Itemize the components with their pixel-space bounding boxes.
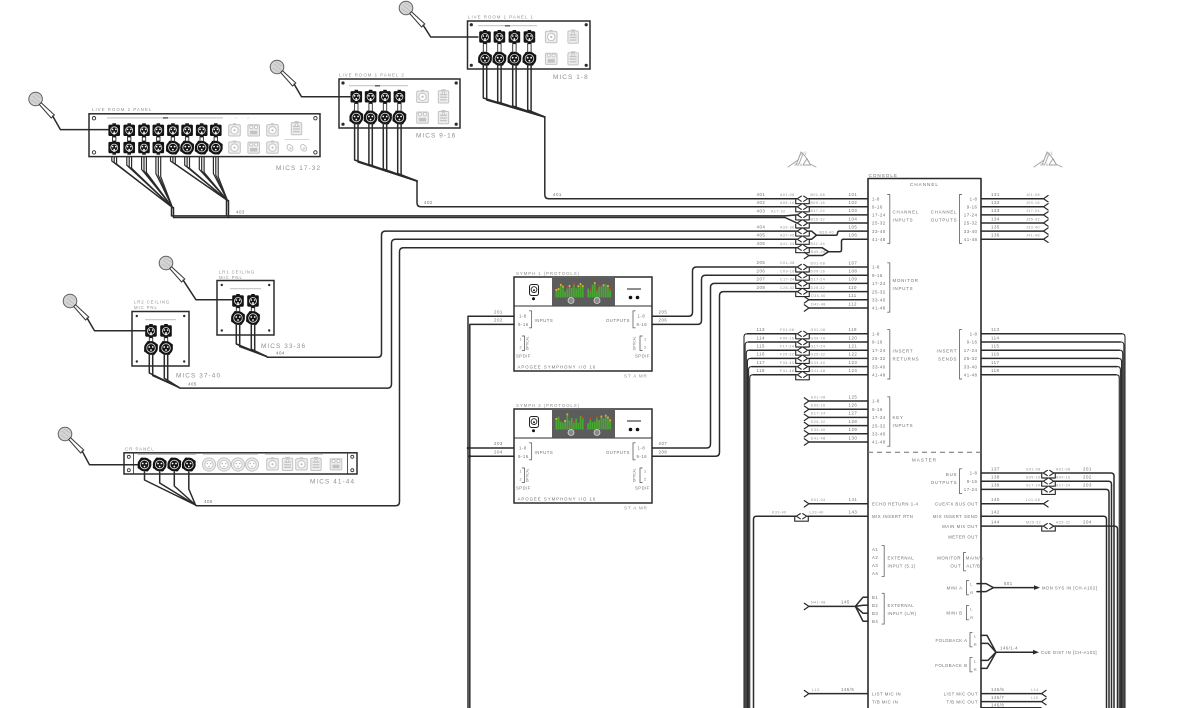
svg-text:CHANNEL: CHANNEL [931,210,958,215]
console section INSERT RETURNS [872,330,919,379]
svg-text:KEY: KEY [893,415,904,420]
svg-text:INPUTS: INPUTS [535,450,554,455]
svg-text:APOGEE SYMPHONY I/O 16: APOGEE SYMPHONY I/O 16 [518,365,597,370]
svg-text:117: 117 [757,360,766,365]
svg-text:INSERT: INSERT [893,348,914,353]
svg-text:SPDIF: SPDIF [516,486,531,491]
wire trunk 403 [172,208,797,223]
svg-text:112: 112 [849,301,858,306]
svg-text:139: 139 [991,483,1000,488]
svg-text:33-40: 33-40 [964,229,978,234]
svg-text:C09-16: C09-16 [780,269,795,273]
svg-text:A17-24: A17-24 [1056,484,1071,488]
svg-text:25-32: 25-32 [872,423,886,428]
svg-text:INPUTS: INPUTS [893,218,914,223]
svg-text:L: L [974,659,977,664]
wire trunk 402 [417,181,797,207]
svg-text:404: 404 [276,351,285,356]
wires channel outputs 131-136 [981,192,1048,242]
svg-text:CONSOLE: CONSOLE [869,173,898,178]
svg-text:17-24: 17-24 [872,213,886,218]
svg-text:M25-32: M25-32 [1026,520,1041,524]
svg-text:MINI B: MINI B [946,610,962,615]
svg-text:133: 133 [991,208,1000,213]
panel LIVE ROOM 1 PANEL 1 [468,15,591,69]
console block MONITOR OUT MAIN/ALT [937,552,983,570]
svg-text:F33-40: F33-40 [780,361,794,365]
svg-text:114: 114 [991,335,1000,340]
svg-text:106: 106 [849,233,858,238]
console section CHANNEL OUTPUTS [931,195,978,244]
svg-text:ECHO RETURN 1-4: ECHO RETURN 1-4 [872,502,919,507]
microphone mic 4 LR1 ceiling [159,256,185,282]
svg-text:202: 202 [1083,475,1092,480]
svg-text:E41-48: E41-48 [811,436,826,440]
svg-text:ST A: ST A [1040,163,1049,167]
svg-text:103: 103 [849,208,858,213]
svg-text:INPUT (5.1): INPUT (5.1) [888,563,916,568]
console frame [868,173,981,708]
svg-text:D41-48: D41-48 [811,302,826,306]
svg-text:206: 206 [757,268,766,273]
svg-text:124: 124 [849,368,858,373]
svg-text:405: 405 [188,381,197,386]
svg-text:9-16: 9-16 [637,322,648,327]
wire mic1 to panel1 [423,25,478,37]
svg-text:SPDIF: SPDIF [635,354,650,359]
svg-text:A01-08: A01-08 [780,193,795,197]
svg-text:INPUT (L/R): INPUT (L/R) [888,611,917,616]
svg-text:1: 1 [644,338,647,342]
svg-text:RETURNS: RETURNS [893,356,920,361]
svg-text:L33-40: L33-40 [810,511,824,515]
panel LR2 CEILING MIC PNL [132,300,189,366]
svg-text:G25-32: G25-32 [811,353,826,357]
svg-text:25-32: 25-32 [872,289,886,294]
wire 205 symph1 out 1-8 to monitor in [652,260,797,316]
svg-text:1-8: 1-8 [638,446,646,451]
svg-text:9-16: 9-16 [518,454,529,459]
row METER OUT [948,535,978,540]
label MICS 37-40 [176,373,221,380]
svg-text:203: 203 [1083,483,1092,488]
svg-text:OUTPUTS: OUTPUTS [606,318,630,323]
svg-text:201: 201 [494,309,503,314]
microphone mic 6 control room [58,427,84,453]
svg-text:G09-16: G09-16 [811,336,826,340]
svg-text:501: 501 [1004,581,1013,586]
device SYMPH 1 (PROTOOLS) Apogee Symphony I/O 16 [514,271,652,371]
svg-text:LIVE ROOM 1 PANEL 1: LIVE ROOM 1 PANEL 1 [468,15,534,20]
svg-text:406: 406 [204,499,213,504]
svg-text:T/B MIC OUT: T/B MIC OUT [946,699,978,704]
svg-text:9-16: 9-16 [967,205,978,210]
svg-text:D01-08: D01-08 [811,261,826,265]
svg-text:121: 121 [849,344,858,349]
svg-text:A09-16: A09-16 [1056,476,1071,480]
svg-text:402: 402 [757,200,766,205]
svg-text:F25-32: F25-32 [780,353,794,357]
svg-text:105: 105 [849,224,858,229]
svg-text:F17-24: F17-24 [780,345,794,349]
svg-text:1: 1 [644,470,647,474]
svg-text:B17-24: B17-24 [811,209,826,213]
svg-text:MONITOR: MONITOR [893,278,919,283]
svg-text:D33-40: D33-40 [811,294,826,298]
svg-text:MIC PNL: MIC PNL [219,275,243,280]
label MICS 1-8 [553,74,589,81]
svg-text:SYMPH 1 (PROTOOLS): SYMPH 1 (PROTOOLS) [516,271,580,276]
revision mark left [788,150,816,167]
wire mic2 to panel2 [294,84,350,97]
svg-text:D17-24: D17-24 [811,278,826,282]
svg-text:INPUTS: INPUTS [893,286,914,291]
svg-text:MONITOR: MONITOR [937,555,961,560]
cable fan CR panel [145,472,196,505]
svg-text:41-48: 41-48 [872,237,886,242]
wire 202 symph1 input 9-16 [470,318,514,708]
svg-text:2: 2 [520,346,523,350]
svg-text:J25-32: J25-32 [1026,217,1040,221]
svg-text:143: 143 [849,510,858,515]
svg-text:OUTPUTS: OUTPUTS [931,218,958,223]
svg-text:MIC PNL: MIC PNL [134,305,158,310]
svg-text:B41-44: B41-44 [811,242,826,246]
svg-text:125: 125 [849,394,858,399]
wires insert returns 113-118 to 119-124 [744,327,868,708]
svg-text:R: R [974,667,977,672]
svg-text:CUE DIST IN [CH-A103]: CUE DIST IN [CH-A103] [1041,650,1097,655]
svg-text:LIST MIC OUT: LIST MIC OUT [944,691,978,696]
svg-text:127: 127 [849,411,858,416]
svg-text:205: 205 [659,309,668,314]
svg-text:9-16: 9-16 [967,479,978,484]
svg-text:F01-08: F01-08 [780,328,794,332]
svg-text:G01-08: G01-08 [811,328,826,332]
svg-text:115: 115 [991,344,1000,349]
svg-text:C01-08: C01-08 [780,261,795,265]
svg-text:B3: B3 [872,611,878,616]
svg-text:208: 208 [659,449,668,454]
wire 208 symph2 out 9-16 to monitor in [652,285,797,456]
label MICS 17-32 [276,165,321,172]
svg-text:17-24: 17-24 [964,487,978,492]
svg-text:146/5: 146/5 [841,687,854,692]
svg-text:41-48: 41-48 [964,237,978,242]
rows FOLDBACK A/B to CUE DIST IN [935,632,1097,671]
svg-text:405: 405 [757,233,766,238]
svg-text:110: 110 [849,285,858,290]
svg-text:MINI A: MINI A [947,585,963,590]
svg-text:MICS 1-8: MICS 1-8 [553,74,589,81]
cable fan LR1 panel [236,325,266,357]
svg-text:B09-16: B09-16 [811,201,826,205]
svg-text:ST A: ST A [794,163,803,167]
svg-text:S09-16: S09-16 [1026,476,1041,480]
svg-text:9-16: 9-16 [872,407,883,412]
svg-text:25-32: 25-32 [872,356,886,361]
svg-text:1: 1 [520,338,523,342]
svg-text:41-48: 41-48 [964,373,978,378]
svg-text:128: 128 [849,419,858,424]
console block EXTERNAL INPUT (L/R) with 145 feed [804,593,916,624]
svg-text:A09-16: A09-16 [780,201,795,205]
svg-text:OPTICAL: OPTICAL [526,468,530,482]
svg-text:134: 134 [991,216,1000,221]
wire mic6 to CR panel [82,451,139,465]
svg-text:E25-32: E25-32 [811,420,826,424]
rows LIST MIC / TB MIC [804,687,1046,708]
panel LIVE ROOM 2 PANEL [89,107,320,157]
svg-text:1-8: 1-8 [519,446,527,451]
svg-text:202: 202 [494,318,503,323]
wire 207 symph2 out 1-8 to monitor in [652,277,797,448]
svg-text:17-24: 17-24 [964,213,978,218]
svg-text:122: 122 [849,352,858,357]
svg-text:L13: L13 [812,688,820,692]
svg-text:1-8: 1-8 [519,314,527,319]
svg-text:ALT/B: ALT/B [966,563,980,568]
svg-text:17-24: 17-24 [872,281,886,286]
console section MONITOR INPUTS [872,263,919,312]
svg-text:41-48: 41-48 [872,306,886,311]
svg-text:205: 205 [757,260,766,265]
splices channel inputs 101-106 [796,192,868,259]
revision mark right [1034,150,1062,167]
svg-text:OUTPUTS: OUTPUTS [606,450,630,455]
svg-text:33-40: 33-40 [872,298,886,303]
svg-text:2: 2 [520,478,523,482]
svg-text:1-8: 1-8 [970,196,978,201]
svg-text:145: 145 [841,600,850,605]
svg-text:208: 208 [757,285,766,290]
svg-text:25-32: 25-32 [872,221,886,226]
svg-text:204: 204 [494,449,503,454]
svg-text:INPUTS: INPUTS [893,423,914,428]
svg-text:D25-32: D25-32 [811,286,826,290]
svg-text:146/7: 146/7 [991,695,1004,700]
svg-text:N41-48: N41-48 [811,601,826,605]
panel LR1 CEILING MIC PNL [217,270,274,335]
svg-text:9-16: 9-16 [967,340,978,345]
svg-text:G17-24: G17-24 [811,345,826,349]
svg-text:B01-08: B01-08 [811,193,826,197]
svg-text:J33-40: J33-40 [1026,225,1040,229]
svg-text:142: 142 [991,510,1000,515]
svg-text:MON SYS IN [CH-A102]: MON SYS IN [CH-A102] [1042,585,1097,590]
cable fan panel1 [483,65,545,117]
svg-text:9-16: 9-16 [872,340,883,345]
svg-text:1-8: 1-8 [638,314,646,319]
wires bus outputs 137-139 to 201-203 [981,466,1114,708]
svg-text:B1: B1 [872,595,878,600]
svg-text:OPTICAL: OPTICAL [526,336,530,350]
svg-text:C25-32: C25-32 [780,286,795,290]
svg-text:132: 132 [991,200,1000,205]
svg-text:203: 203 [494,441,503,446]
microphone mic 2 live room 1 [270,60,296,86]
wire mic4 to LR1 panel [183,280,233,300]
svg-text:L: L [970,582,973,587]
svg-text:25-32: 25-32 [964,356,978,361]
svg-text:L15: L15 [1031,696,1039,700]
svg-text:L14: L14 [1031,688,1039,692]
svg-text:2: 2 [644,478,647,482]
svg-text:G33-40: G33-40 [811,361,826,365]
svg-text:1: 1 [520,470,523,474]
splices monitor inputs 107-112 [796,260,868,311]
svg-text:FOLDBACK A: FOLDBACK A [936,638,968,643]
svg-text:E09-16: E09-16 [811,404,826,408]
label MICS 33-36 [261,343,306,350]
svg-text:OPTICAL: OPTICAL [633,336,637,350]
svg-text:A33-36: A33-36 [780,225,795,229]
panel CR PANEL [124,447,357,474]
svg-text:CR PANEL: CR PANEL [125,447,155,452]
svg-text:1-8: 1-8 [970,332,978,337]
svg-text:◌ ▭ ◌ ▭ ◌: ◌ ▭ ◌ ▭ ◌ [229,116,257,120]
svg-text:F41-48: F41-48 [780,369,794,373]
cable fan panel2 [355,123,417,181]
svg-text:E33-40: E33-40 [811,428,826,432]
svg-text:K33-40: K33-40 [772,511,787,515]
svg-text:MAIN/A: MAIN/A [966,555,984,560]
svg-text:113: 113 [757,327,766,332]
wire trunk 401 [545,117,797,199]
svg-text:A37-40: A37-40 [780,234,795,238]
svg-text:BUS: BUS [946,472,957,477]
svg-text:17-24: 17-24 [872,348,886,353]
svg-text:116: 116 [991,352,1000,357]
svg-text:108: 108 [849,269,858,274]
svg-text:SENDS: SENDS [938,356,957,361]
svg-text:C17-24: C17-24 [780,278,795,282]
svg-text:130: 130 [849,435,858,440]
svg-text:L: L [974,634,977,639]
wire mic5 to LR2 panel [87,318,146,331]
svg-text:EXTERNAL: EXTERNAL [888,555,915,560]
svg-text:A01-08: A01-08 [1056,467,1071,471]
svg-text:25-32: 25-32 [964,221,978,226]
console section CHANNEL INPUTS [872,195,919,244]
svg-text:2: 2 [644,346,647,350]
svg-text:146/6: 146/6 [991,687,1004,692]
console section INSERT SENDS [936,330,977,379]
svg-text:111: 111 [849,293,857,298]
svg-text:E17-24: E17-24 [811,412,826,416]
svg-text:33-40: 33-40 [872,364,886,369]
svg-text:LIVE ROOM 2 PANEL: LIVE ROOM 2 PANEL [92,107,152,112]
svg-text:107: 107 [849,260,858,265]
svg-text:206: 206 [659,318,668,323]
label ST A MR (symph 1) [624,374,648,379]
wires insert sends 113-118 right rails [981,327,1125,708]
svg-text:1-8: 1-8 [970,471,978,476]
svg-text:MICS 17-32: MICS 17-32 [276,165,321,172]
svg-text:MICS 9-16: MICS 9-16 [416,133,456,140]
svg-text:1-8: 1-8 [872,196,880,201]
svg-text:201: 201 [1083,466,1092,471]
svg-text:FOLDBACK B: FOLDBACK B [935,663,967,668]
svg-text:33-40: 33-40 [872,229,886,234]
svg-text:9-16: 9-16 [872,205,883,210]
svg-text:L: L [970,607,973,612]
svg-text:104: 104 [849,216,858,221]
svg-text:R: R [970,590,973,595]
microphone mic 1 live room 1 [399,1,425,27]
svg-text:OUT: OUT [950,563,961,568]
svg-text:135: 135 [991,224,1000,229]
svg-text:41-48: 41-48 [872,373,886,378]
svg-text:129: 129 [849,427,858,432]
svg-text:137: 137 [991,466,1000,471]
svg-text:114: 114 [757,335,766,340]
wire 204 symph2 input 9-16 [469,449,515,457]
svg-text:17-24: 17-24 [964,348,978,353]
svg-text:33-40: 33-40 [872,432,886,437]
svg-text:SPDIF: SPDIF [635,486,650,491]
svg-text:A3: A3 [872,563,878,568]
svg-text:R: R [970,615,973,620]
svg-text:T/B MIC IN: T/B MIC IN [872,699,898,704]
svg-text:CHANNEL: CHANNEL [893,210,920,215]
row MIX INSERT SEND (142) [933,510,1107,708]
svg-text:J09-16: J09-16 [1026,201,1040,205]
row ECHO RETURN 1-4 (141) [804,497,918,507]
svg-text:E01-08: E01-08 [811,395,826,399]
svg-text:9-16: 9-16 [637,454,648,459]
svg-text:207: 207 [659,441,668,446]
svg-text:146/1-4: 146/1-4 [1000,646,1018,651]
svg-text:A4: A4 [872,571,878,576]
svg-text:207: 207 [757,277,766,282]
svg-text:131: 131 [991,192,1000,197]
row MINI B [946,605,973,619]
svg-text:138: 138 [991,475,1000,480]
svg-text:A2: A2 [872,555,878,560]
svg-text:J01-08: J01-08 [1026,193,1040,197]
svg-text:SYMPH 2 (PROTOOLS): SYMPH 2 (PROTOOLS) [516,403,580,408]
panel LIVE ROOM 1 PANEL 2 [339,73,460,128]
svg-text:MASTER: MASTER [912,458,937,463]
svg-text:116: 116 [757,352,766,357]
svg-text:J41-48: J41-48 [1026,234,1040,238]
svg-text:404: 404 [757,224,766,229]
svg-text:A25-32: A25-32 [1056,520,1071,524]
svg-text:S17-24: S17-24 [1026,484,1041,488]
svg-text:SPDIF: SPDIF [516,354,531,359]
label MICS 9-16 [416,133,456,140]
svg-text:APOGEE SYMPHONY I/O 16: APOGEE SYMPHONY I/O 16 [518,497,597,502]
svg-text:MICS 41-44: MICS 41-44 [310,479,355,486]
svg-text:MICS 37-40: MICS 37-40 [176,373,221,380]
label MICS 41-44 [310,479,355,486]
svg-text:144: 144 [991,519,1000,524]
row MIX INSERT RTN (143) [754,510,914,708]
svg-text:ST A MR: ST A MR [624,506,648,511]
svg-text:MIX INSERT SEND: MIX INSERT SEND [933,514,978,519]
device SYMPH 2 (PROTOOLS) Apogee Symphony I/O 16 [514,403,652,503]
svg-text:401: 401 [553,192,562,197]
svg-text:MAIN MIX OUT: MAIN MIX OUT [942,524,978,529]
svg-text:B2: B2 [872,603,878,608]
svg-text:401: 401 [757,192,766,197]
svg-text:120: 120 [849,335,858,340]
svg-text:B45-48: B45-48 [811,250,826,254]
label ST A MR (symph 2) [624,506,648,511]
svg-text:204: 204 [1083,519,1092,524]
svg-text:J17-24: J17-24 [1026,209,1040,213]
